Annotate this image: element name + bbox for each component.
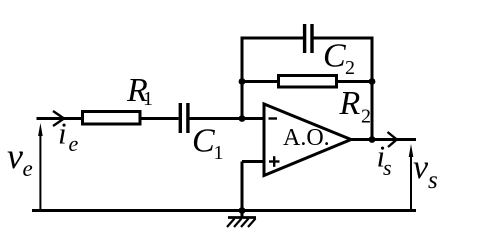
label v_e: [7, 136, 33, 181]
svg-text:i: i: [58, 116, 67, 151]
op-amp U1 triangle: [264, 104, 351, 176]
svg-text:v: v: [413, 149, 429, 186]
voltage arrow v_e: [38, 123, 43, 211]
capacitor C1: [180, 103, 188, 133]
node junction dot right of R2: [369, 78, 376, 85]
svg-text:2: 2: [361, 106, 371, 128]
wire input left segment: [37, 117, 83, 120]
svg-text:v: v: [7, 136, 23, 176]
label i_s: [377, 139, 392, 181]
current arrow i_e: [53, 111, 64, 126]
op-amp non-inverting input plus sign: [269, 156, 280, 167]
wire R1 to C1: [142, 117, 179, 120]
svg-text:e: e: [69, 131, 79, 156]
svg-text:A.O.: A.O.: [283, 125, 330, 151]
voltage arrow v_s: [409, 144, 414, 211]
current arrow i_s: [388, 132, 397, 147]
label R1: [126, 72, 153, 110]
label R2: [339, 85, 372, 128]
wire R2 right segment: [338, 80, 373, 83]
op-amp inverting input minus sign: [269, 117, 278, 119]
wire right vertical feedback: [371, 37, 374, 140]
wire top loop right: [314, 37, 374, 40]
ground: [227, 211, 256, 228]
svg-text:1: 1: [214, 142, 224, 164]
node junction dot at ground bus: [239, 207, 246, 214]
svg-text:s: s: [383, 155, 392, 180]
label i_e: [58, 116, 79, 157]
svg-text:e: e: [23, 156, 33, 181]
wire top loop left: [241, 37, 304, 40]
label C2: [323, 38, 355, 80]
svg-text:C: C: [323, 38, 346, 75]
capacitor C2: [305, 24, 312, 53]
svg-text:1: 1: [143, 88, 153, 110]
wire R2 left segment: [242, 80, 278, 83]
resistor R1: [83, 112, 141, 125]
label v_s: [413, 149, 438, 194]
svg-text:s: s: [428, 167, 438, 194]
wire vertical branch up from inverting node: [241, 37, 244, 119]
svg-text:2: 2: [345, 57, 355, 79]
wire output: [351, 138, 416, 141]
wire vertical down to ground bus: [241, 162, 244, 213]
wire C1 to op-amp inverting input: [190, 117, 265, 120]
node junction dot at output feedback tap: [369, 136, 376, 143]
wire non-inverting input: [242, 160, 264, 163]
node junction dot at inverting input branch: [239, 115, 246, 122]
node junction dot left of R2: [239, 78, 246, 85]
svg-text:C: C: [192, 123, 215, 160]
resistor R2: [279, 76, 337, 88]
wire bottom bus: [32, 209, 416, 212]
svg-text:R: R: [339, 85, 361, 122]
label C1: [192, 123, 224, 165]
